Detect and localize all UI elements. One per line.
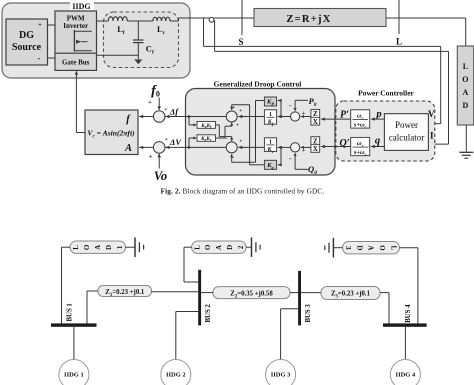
svg-text:Generalized Droop Control: Generalized Droop Control (214, 80, 302, 89)
svg-text:+: + (148, 99, 152, 106)
svg-text:+: + (165, 137, 168, 143)
svg-text:Power: Power (395, 120, 418, 130)
svg-text:D: D (355, 245, 363, 250)
svg-text:D: D (463, 101, 469, 110)
svg-text:S: S (238, 37, 243, 47)
svg-text:Vo: Vo (154, 169, 167, 183)
svg-text:D: D (226, 245, 234, 250)
svg-text:+: + (38, 22, 42, 29)
svg-text:A: A (124, 143, 132, 154)
svg-text:+: + (239, 139, 242, 145)
svg-text:Z: Z (313, 111, 318, 118)
svg-text:L: L (463, 62, 468, 71)
svg-text:+: + (236, 123, 239, 129)
svg-text:IIDG 4: IIDG 4 (396, 371, 416, 378)
svg-text:Q′: Q′ (339, 138, 349, 149)
svg-text:L: L (390, 246, 398, 251)
svg-text:+: + (239, 108, 242, 114)
svg-text:BUS 3: BUS 3 (305, 304, 312, 323)
svg-text:O: O (204, 244, 212, 250)
svg-text:Z=R+jX: Z=R+jX (286, 14, 331, 25)
svg-text:X: X (313, 146, 318, 153)
svg-text:A: A (367, 245, 375, 250)
svg-text:DG: DG (19, 30, 34, 41)
svg-text:ΔV: ΔV (169, 137, 182, 147)
svg-text:Inverter: Inverter (63, 22, 88, 30)
svg-text:Kf: Kf (267, 119, 274, 126)
svg-text:IIDG: IIDG (72, 2, 90, 11)
svg-text:A: A (94, 245, 102, 250)
svg-text:V: V (428, 109, 435, 119)
svg-text:calculator: calculator (389, 133, 424, 143)
svg-text:-: - (232, 155, 234, 161)
svg-text:f0: f0 (151, 84, 160, 99)
svg-text:L: L (72, 245, 80, 250)
svg-text:O: O (462, 75, 468, 84)
svg-text:O: O (378, 245, 386, 251)
svg-text:A: A (463, 88, 469, 97)
svg-text:BUS 4: BUS 4 (405, 304, 412, 323)
svg-text:Δf: Δf (169, 107, 179, 117)
svg-text:+: + (164, 107, 167, 113)
svg-text:IIDG 3: IIDG 3 (271, 371, 291, 378)
svg-text:O: O (83, 244, 91, 250)
svg-text:s+ωc: s+ωc (353, 122, 367, 130)
svg-text:-: - (38, 54, 41, 63)
svg-text:BUS 2: BUS 2 (205, 304, 212, 323)
svg-text:1: 1 (116, 245, 124, 249)
svg-text:Fig. 2. Block diagram of an II: Fig. 2. Block diagram of an IIDG control… (161, 187, 325, 196)
svg-text:D: D (105, 245, 113, 250)
svg-text:3: 3 (344, 246, 352, 250)
svg-text:s+ωc: s+ωc (353, 149, 367, 157)
svg-text:A: A (215, 245, 223, 250)
svg-text:p: p (375, 109, 381, 120)
svg-text:IIDG 1: IIDG 1 (64, 371, 84, 378)
svg-text:I: I (430, 130, 434, 140)
svg-text:2: 2 (237, 245, 245, 249)
svg-text:BUS 1: BUS 1 (67, 303, 74, 322)
svg-text:+: + (302, 111, 306, 117)
svg-text:+: + (302, 148, 306, 154)
svg-text:IIDG 2: IIDG 2 (166, 371, 186, 378)
svg-text:q: q (375, 136, 380, 147)
svg-text:+: + (232, 105, 235, 111)
svg-text:Source: Source (12, 42, 42, 53)
svg-text:L: L (396, 37, 402, 47)
svg-text:+: + (149, 154, 153, 161)
svg-text:L: L (193, 245, 201, 250)
svg-text:Power Controller: Power Controller (358, 89, 414, 98)
svg-text:Z: Z (313, 138, 318, 145)
svg-text:Gate Bus: Gate Bus (62, 59, 90, 67)
svg-text:Kv: Kv (266, 147, 274, 154)
svg-text:X: X (313, 119, 318, 126)
